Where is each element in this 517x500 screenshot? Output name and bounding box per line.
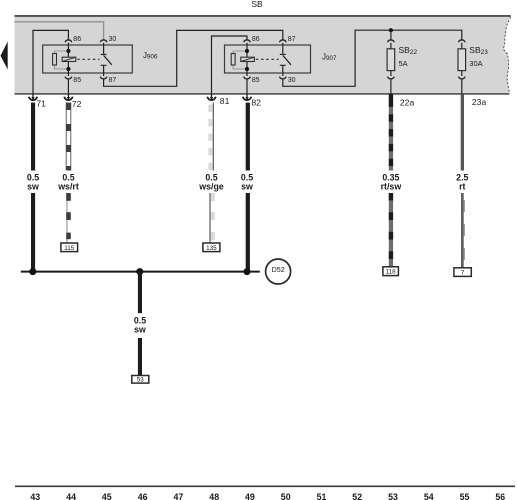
track number rule: [15, 485, 515, 487]
node J907 coil top junction: [245, 49, 249, 53]
wire 71 upper segment 0.5 sw: [31, 103, 35, 171]
svg-text:86: 86: [252, 36, 260, 43]
connector 115: [61, 243, 78, 252]
wire 72 upper segment 0.5 ws/rt: [66, 103, 71, 171]
svg-text:SB: SB: [251, 0, 263, 9]
svg-text:sw: sw: [27, 181, 39, 191]
terminal 87 of J907: [279, 40, 286, 42]
svg-text:115: 115: [64, 245, 75, 252]
wire gray supply rail to terminal 30 of J906: [15, 22, 104, 40]
wire 72 lower segment to connector 115: [66, 193, 71, 243]
relay J906 coil resistor element: [53, 54, 57, 66]
svg-text:43: 43: [30, 492, 40, 500]
fuse SB23: [458, 40, 465, 42]
track numbers 43-56: [30, 492, 505, 500]
wire 82 upper segment 0.5 sw: [246, 103, 250, 171]
svg-text:30A: 30A: [469, 59, 482, 68]
svg-text:D52: D52: [272, 265, 285, 274]
svg-text:56: 56: [495, 492, 505, 500]
svg-text:49: 49: [245, 492, 255, 500]
node bus junction wire 71: [29, 268, 36, 275]
ground point D52: [266, 259, 291, 284]
relay J906 coil branch wires: [67, 43, 69, 76]
svg-text:22a: 22a: [400, 97, 415, 107]
relay J907 coil branch wires: [246, 43, 248, 76]
wire 81 feed to terminal 86 of J907: [212, 36, 248, 94]
fuse SB22: [388, 40, 395, 42]
connector 7: [454, 268, 471, 277]
svg-text:87: 87: [288, 36, 296, 43]
terminal 30 of J906: [100, 40, 107, 42]
terminal 86 of J906: [65, 40, 72, 42]
wire 82 lower segment to ground bus: [246, 193, 250, 272]
connector 53: [132, 376, 149, 384]
terminal 87 of J906: [100, 77, 107, 79]
wire middle drop upper segment 0.5 sw: [138, 272, 142, 314]
ground bus wire: [21, 271, 260, 273]
relay J906 switch contact: [103, 43, 105, 54]
connector exit 82: [246, 94, 248, 97]
wire 23a lower segment to connector 7: [461, 193, 465, 268]
svg-text:ws/rt: ws/rt: [57, 181, 79, 191]
fuse panel band SB: [15, 16, 511, 95]
wire 23a upper segment 2.5 rt: [461, 94, 464, 171]
svg-text:86: 86: [73, 36, 81, 43]
svg-text:54: 54: [424, 492, 434, 500]
svg-text:46: 46: [138, 492, 148, 500]
relay J906 actuation dashed link: [77, 58, 99, 60]
relay J906 winding symbol: [62, 57, 76, 61]
direction arrow (page continuation): [1, 42, 8, 70]
relay J907 coil resistor element: [231, 54, 235, 66]
svg-text:30: 30: [109, 36, 117, 43]
wire 85 of J906 down to exit 72: [67, 79, 69, 94]
wire 85 of J907 down to exit 82: [246, 79, 248, 94]
node J907 coil bottom junction: [245, 67, 249, 71]
svg-text:30: 30: [288, 77, 296, 84]
terminal 85 of J907: [244, 77, 251, 79]
svg-text:53: 53: [388, 492, 398, 500]
relay J906 box: [43, 45, 133, 73]
relay J907 box: [225, 45, 311, 73]
wire 71 feed to terminal 86 of J906: [33, 30, 68, 94]
svg-text:45: 45: [102, 492, 112, 500]
terminal 86 of J907: [244, 40, 251, 42]
connector exit 71: [32, 94, 34, 97]
node J906 coil top junction: [66, 49, 70, 53]
terminal 30 of J907: [279, 77, 286, 79]
wire J906 87 to J907 87: [104, 30, 283, 86]
svg-text:rt/sw: rt/sw: [381, 181, 402, 191]
node J906 coil bottom junction: [66, 67, 70, 71]
svg-text:55: 55: [460, 492, 470, 500]
svg-text:sw: sw: [241, 181, 253, 191]
svg-text:47: 47: [174, 492, 184, 500]
connector 135: [203, 243, 220, 252]
svg-text:5A: 5A: [399, 59, 408, 68]
wire junction to fuse SB22: [390, 30, 392, 40]
svg-text:7: 7: [461, 270, 465, 277]
svg-text:72: 72: [72, 99, 82, 109]
node bus junction middle drop: [136, 268, 143, 275]
svg-text:81: 81: [220, 96, 230, 106]
connector exit 81: [211, 94, 213, 97]
svg-text:23a: 23a: [472, 97, 487, 107]
node bus junction wire 82: [244, 268, 251, 275]
wire 81 lower segment to connector 135: [210, 193, 215, 243]
terminal 85 of J906: [65, 77, 72, 79]
wire middle drop lower segment to connector 53: [138, 338, 142, 376]
svg-text:48: 48: [209, 492, 219, 500]
wire J907 30 to fuse rail: [283, 30, 462, 86]
wire 81 upper segment 0.5 ws/ge: [208, 103, 213, 171]
svg-text:85: 85: [73, 77, 81, 84]
wire 22a lower segment to connector 118: [389, 193, 393, 267]
relay J907 actuation dashed link: [256, 58, 279, 60]
svg-text:87: 87: [109, 77, 117, 84]
svg-text:50: 50: [281, 492, 291, 500]
wire 22a upper segment 0.35 rt/sw: [389, 94, 393, 171]
svg-text:52: 52: [352, 492, 362, 500]
connector 118: [383, 267, 399, 276]
wire 71 lower segment to ground bus: [31, 193, 35, 272]
relay J907 switch contact: [282, 43, 284, 54]
svg-text:44: 44: [66, 492, 76, 500]
relay J907 winding symbol: [241, 57, 255, 61]
svg-text:118: 118: [386, 269, 397, 276]
node fuse rail junction: [389, 28, 393, 32]
svg-text:53: 53: [137, 377, 145, 384]
svg-text:71: 71: [36, 99, 46, 109]
svg-text:135: 135: [206, 245, 217, 252]
connector exit 72: [67, 94, 69, 97]
svg-text:85: 85: [252, 77, 260, 84]
svg-text:82: 82: [251, 98, 261, 108]
svg-text:51: 51: [317, 492, 327, 500]
svg-text:sw: sw: [134, 324, 146, 334]
svg-text:ws/ge: ws/ge: [198, 181, 224, 191]
svg-text:rt: rt: [459, 181, 465, 191]
